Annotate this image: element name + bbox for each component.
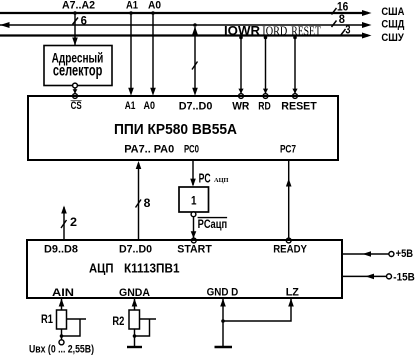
svg-text:2: 2	[70, 215, 77, 229]
svg-text:3: 3	[345, 23, 350, 37]
+5V terminal circle	[389, 252, 394, 257]
wire IORD from СШУ to RD	[265, 36, 267, 94]
svg-text:ППИ КР580 ВВ55А: ППИ КР580 ВВ55А	[114, 122, 237, 138]
arrowhead A0 into ППИ	[150, 88, 156, 96]
wire IOWR from СШУ to WR	[240, 36, 242, 94]
bus США width slash 16	[332, 8, 337, 15]
address selector box	[44, 46, 112, 86]
svg-text:D9..D8: D9..D8	[44, 244, 78, 256]
READY pin bubble	[286, 238, 291, 243]
svg-text:AIN: AIN	[52, 287, 74, 299]
PA bus width slash 8	[136, 200, 142, 208]
wire inverter to START	[193, 217, 195, 238]
svg-text:РА7.. РА0: РА7.. РА0	[124, 144, 174, 156]
arrowhead into START	[191, 231, 197, 238]
junction R2 bottom	[133, 334, 137, 338]
junction R1 bottom	[60, 334, 64, 338]
svg-text:+5В: +5В	[396, 248, 414, 260]
svg-text:РС7: РС7	[280, 144, 296, 156]
wire +5V supply	[342, 253, 389, 255]
inverter output bubble	[191, 212, 196, 217]
wire A1 from США to ППИ	[130, 13, 132, 89]
bus СШУ width slash 3	[341, 29, 346, 36]
wire selector to CS	[74, 88, 76, 93]
arrowhead up free end	[61, 206, 67, 214]
arrowhead down into ППИ	[192, 88, 198, 96]
svg-text:PCацп: PCацп	[198, 217, 228, 231]
bus США (address bus)	[0, 12, 368, 14]
junction on СШУ at RESET	[293, 36, 297, 40]
ground under R2	[127, 346, 142, 348]
ground under GND D	[215, 346, 233, 348]
arrowhead up into ППИ PA port	[136, 161, 142, 169]
svg-text:А1: А1	[125, 100, 136, 112]
arrowhead into GNDA	[132, 299, 138, 307]
svg-text:К1113ПВ1: К1113ПВ1	[124, 261, 180, 276]
R2 wiper tap	[140, 318, 157, 320]
wire PA7..PA0 to D7..D0 of ADC	[138, 163, 140, 240]
wire A7..A2 from США to address selector	[74, 13, 76, 46]
Uвх input terminal	[59, 340, 64, 345]
wire R1 to AIN	[61, 298, 63, 310]
wire -15V supply	[342, 275, 387, 277]
R1 wiper tap	[67, 318, 87, 320]
potentiometer R2 body	[129, 310, 140, 329]
svg-text:А7..А2: А7..А2	[62, 0, 95, 11]
R1 bottom lead	[61, 329, 63, 340]
wire READY to PC7	[288, 161, 290, 238]
D9..D8 width slash 2	[61, 220, 67, 228]
svg-text:США: США	[381, 6, 404, 18]
svg-text:IOWR: IOWR	[224, 24, 260, 38]
junction on СШУ at IOWR	[239, 36, 243, 40]
arrowhead into inverter	[190, 179, 196, 187]
bus СШД left arrowhead	[0, 22, 10, 28]
RD input bubble	[263, 94, 268, 99]
junction on СШУ at IORD	[264, 36, 268, 40]
svg-text:1: 1	[191, 195, 197, 207]
svg-text:Uвх (0 ... 2,55В): Uвх (0 ... 2,55В)	[29, 344, 94, 356]
svg-text:READY: READY	[273, 244, 307, 256]
arrowhead A1 into ППИ	[128, 88, 134, 96]
svg-text:АЦП: АЦП	[89, 261, 114, 276]
wire A7..A2 width slash 6	[73, 18, 79, 25]
CS input bubble	[73, 94, 78, 99]
svg-text:GNDA: GNDA	[119, 287, 150, 299]
svg-text:START: START	[177, 244, 212, 256]
potentiometer R1 body	[57, 310, 67, 329]
arrowhead up mid-wire	[286, 179, 292, 187]
svg-text:GND D: GND D	[207, 287, 239, 299]
arrowhead left mid-wire	[363, 251, 372, 257]
bus США right arrowhead	[362, 10, 372, 16]
svg-text:D7..D0: D7..D0	[179, 101, 213, 113]
svg-text:8: 8	[339, 12, 345, 26]
svg-text:CS: CS	[71, 100, 82, 112]
wire D7..D0 between СШД and ППИ (bidirectional)	[194, 27, 196, 89]
RESET input bubble	[293, 94, 298, 99]
svg-text:PC: PC	[199, 171, 211, 186]
arrowhead left mid-wire	[366, 274, 375, 280]
-15V terminal circle	[387, 274, 392, 279]
wire D9..D8 stub	[63, 207, 65, 240]
svg-text:СШД: СШД	[381, 19, 404, 31]
svg-text:RD: RD	[258, 101, 271, 113]
svg-text:LZ: LZ	[286, 287, 299, 299]
svg-text:RESET: RESET	[291, 23, 321, 38]
wire RESET from СШУ to RESET pin	[294, 36, 296, 94]
arrowhead up to СШД	[192, 27, 198, 35]
wire A0 from США to ППИ	[152, 13, 154, 89]
svg-text:6: 6	[81, 14, 88, 28]
wire R2 to GNDA	[134, 298, 136, 310]
inverter U2 "1"	[179, 187, 209, 212]
svg-text:селектор: селектор	[53, 62, 103, 79]
svg-text:СШУ: СШУ	[381, 32, 404, 44]
ADC АЦП К1113ПВ1 box U3	[27, 240, 342, 298]
wire PC0 to inverter	[192, 161, 194, 185]
bus СШД right arrowhead	[362, 22, 372, 28]
svg-text:IORD: IORD	[262, 23, 287, 38]
D7..D0 width slash 8	[192, 62, 198, 70]
svg-text:А1: А1	[126, 0, 138, 11]
svg-text:RESET: RESET	[281, 101, 317, 113]
svg-text:WR: WR	[232, 101, 249, 113]
junction on США at A0	[151, 11, 155, 15]
ППИ КР580 ВВ55А box U1	[28, 96, 338, 160]
svg-text:-15В: -15В	[393, 271, 415, 283]
svg-text:АЦП: АЦП	[214, 177, 229, 184]
svg-text:А0: А0	[144, 100, 156, 112]
bus СШУ right arrowhead	[362, 33, 372, 39]
arrowhead into selector	[72, 38, 78, 46]
bus СШД (data bus)	[0, 24, 368, 26]
svg-text:А0: А0	[148, 0, 161, 11]
svg-text:D7..D0: D7..D0	[119, 244, 152, 256]
bus СШД width slash 8	[332, 21, 337, 28]
bus СШУ (control bus)	[0, 34, 368, 36]
selector output inversion bubble	[73, 83, 78, 88]
svg-text:8: 8	[144, 196, 151, 210]
junction on США at A7..A2	[73, 11, 77, 15]
wire GND D to ground	[222, 298, 224, 346]
svg-text:РС0: РС0	[184, 144, 199, 156]
START input bubble	[191, 238, 196, 243]
arrowhead into AIN	[59, 299, 65, 307]
R2 bottom lead	[134, 329, 136, 346]
junction GND D / LZ	[221, 319, 225, 323]
junction on США at A1	[129, 11, 133, 15]
svg-text:R1: R1	[41, 314, 53, 326]
arrowhead into LZ	[288, 299, 294, 307]
svg-text:R2: R2	[112, 316, 124, 328]
WR input bubble	[239, 94, 244, 99]
junction on СШД at D7..D0	[193, 23, 197, 27]
wire to LZ	[223, 298, 291, 321]
arrowhead into GND D	[220, 299, 226, 307]
